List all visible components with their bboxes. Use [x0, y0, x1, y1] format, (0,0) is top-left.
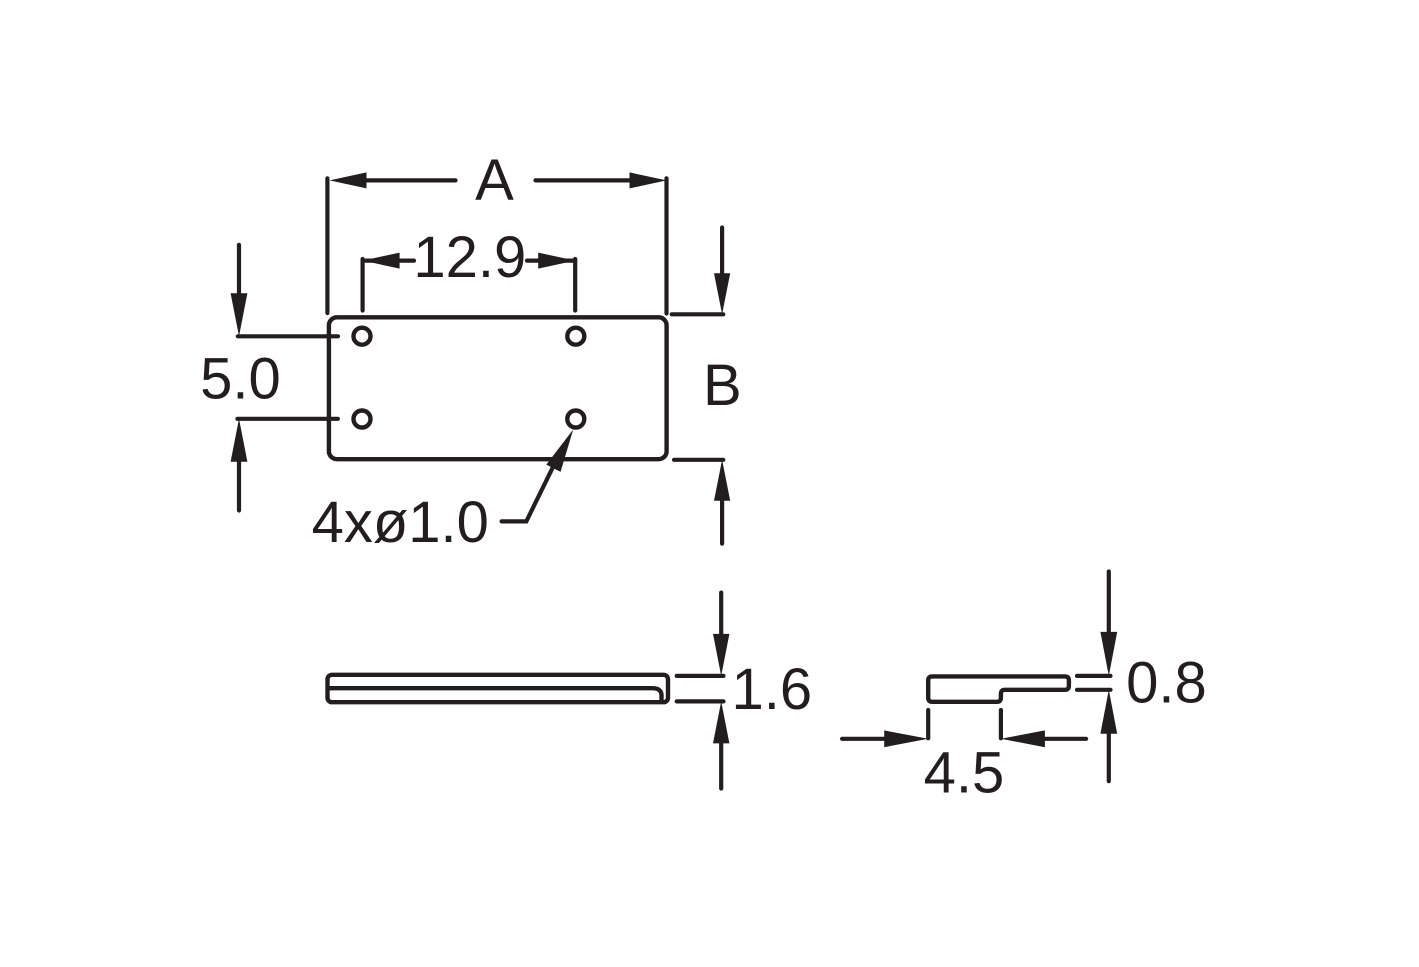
- dimension B extension line top: [672, 312, 724, 316]
- hole bottom-left: [354, 411, 371, 428]
- side view inner lip line: [330, 688, 662, 700]
- dimension A extension line left: [325, 178, 329, 313]
- dimension 4.5 arrowhead right: [1001, 730, 1045, 747]
- dimension B lower arrow shaft: [720, 500, 724, 544]
- svg-text:B: B: [703, 353, 742, 418]
- dimension 0.8 upper arrow shaft: [1107, 572, 1111, 639]
- dimension 5.0 upper arrow shaft: [237, 245, 241, 298]
- dimension 5.0 upper arrowhead: [231, 293, 248, 336]
- dimension 12.9 arrowhead left: [363, 253, 400, 269]
- hole bottom-right: [567, 411, 584, 428]
- dimension 5.0 lower arrowhead: [231, 419, 248, 462]
- dimension 0.8 lower arrowhead: [1100, 690, 1117, 734]
- end view stepped profile: [928, 676, 1069, 701]
- dimension A extension line right: [664, 178, 668, 313]
- plate outline top view: [329, 317, 667, 459]
- hole top-left: [354, 328, 371, 345]
- dimension 1.6 lower arrowhead: [713, 701, 729, 743]
- dimension 0.8 extension line bottom: [1077, 688, 1111, 692]
- dimension B upper arrow shaft: [720, 228, 724, 277]
- dimension 4.5 line right segment: [1039, 737, 1086, 741]
- dimension A arrowhead right: [630, 172, 667, 188]
- dimension 12.9 line left segment: [363, 259, 414, 263]
- dimension 4.5 line left segment: [842, 737, 890, 741]
- dimension 1.6 extension line bottom: [677, 699, 724, 703]
- dimension B upper arrowhead: [714, 273, 730, 314]
- dimension 5.0 extension line bottom: [237, 417, 338, 421]
- dimension A line right segment: [536, 178, 633, 182]
- dimension 0.8 lower arrow shaft: [1107, 728, 1111, 781]
- dimension 12.9 arrowhead right: [538, 253, 575, 269]
- side view plate outline: [328, 675, 669, 702]
- dimension A arrowhead left: [330, 172, 367, 188]
- svg-text:A: A: [475, 148, 514, 213]
- hole top-right: [567, 328, 584, 345]
- dimension 4.5 extension line right: [999, 710, 1003, 738]
- dimension 1.6 upper arrowhead: [713, 634, 729, 676]
- dimension 4.5 extension line left: [926, 710, 930, 738]
- svg-text:0.8: 0.8: [1126, 651, 1207, 716]
- dimension 12.9 line right segment: [527, 259, 575, 263]
- dimension 1.6 upper arrow shaft: [719, 593, 723, 638]
- dimension 0.8 extension line top: [1077, 674, 1111, 678]
- svg-text:4.5: 4.5: [924, 741, 1005, 806]
- leader arrowhead: [546, 430, 573, 472]
- dimension 5.0 extension line top: [238, 334, 338, 338]
- leader line 4x dia 1.0: [502, 464, 555, 522]
- dimension 5.0 lower arrow shaft: [237, 459, 241, 511]
- dimension 0.8 upper arrowhead: [1100, 632, 1117, 676]
- svg-text:12.9: 12.9: [413, 225, 526, 290]
- dimension 1.6 extension line top: [677, 674, 724, 678]
- svg-text:5.0: 5.0: [200, 347, 281, 412]
- svg-text:4xø1.0: 4xø1.0: [312, 490, 489, 555]
- dimension 1.6 lower arrow shaft: [719, 739, 723, 788]
- dimension 12.9 extension line left: [361, 259, 365, 311]
- dimension A line left segment: [364, 178, 456, 182]
- svg-text:1.6: 1.6: [731, 657, 812, 722]
- dimension B extension line bottom: [674, 458, 723, 462]
- dimension 4.5 arrowhead left: [884, 730, 928, 747]
- dimension B lower arrowhead: [714, 460, 730, 501]
- dimension 12.9 extension line right: [573, 259, 577, 311]
